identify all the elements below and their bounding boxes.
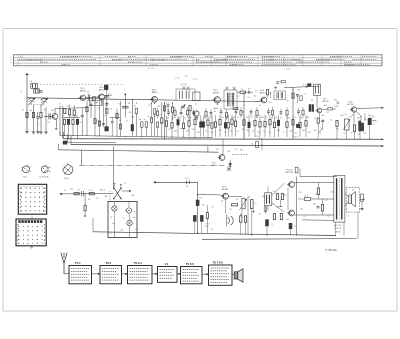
R4bc legs [69, 115, 71, 118]
mid component r9 [225, 112, 227, 117]
flow box TS2 [100, 266, 122, 284]
row wire y117.7 [62, 117, 80, 119]
svg-text:12k: 12k [308, 132, 311, 134]
svg-text:220: 220 [258, 132, 261, 134]
power verticals [194, 221, 196, 233]
TS1 base wire [44, 115, 52, 117]
svg-text:100: 100 [129, 112, 132, 114]
osc transistor hatch [194, 117, 198, 119]
svg-text:1 8: 1 8 [30, 81, 33, 83]
resistor R46 [336, 121, 338, 127]
lamp E1 legs [113, 202, 115, 206]
svg-text:6k8: 6k8 [277, 130, 280, 132]
R39 legs [274, 128, 276, 137]
svg-text:68: 68 [88, 199, 90, 201]
R43 legs [299, 128, 301, 137]
transistor TS1 [52, 114, 58, 120]
svg-text:6k8: 6k8 [307, 117, 310, 119]
svg-text:0,1: 0,1 [304, 216, 306, 218]
ecap tick [372, 120, 376, 122]
resistor R34 [259, 122, 261, 127]
resistor R17 [182, 123, 184, 128]
svg-text:220: 220 [297, 89, 300, 91]
svg-text:8 8 8 L 8 7: 8 8 8 L 8 7 [112, 59, 123, 61]
svg-text:8 8: 8 8 [334, 99, 337, 101]
svg-text:220: 220 [288, 117, 291, 119]
svg-text:82: 82 [295, 132, 297, 134]
resistor R3 [40, 112, 42, 117]
mid component r15 [271, 110, 273, 115]
svg-text:8 8 8: 8 8 8 [336, 232, 340, 234]
IF chain bottom blob [105, 127, 109, 131]
svg-text:10: 10 [212, 207, 214, 209]
ladder v x99.5 [99, 100, 101, 136]
out cap [317, 206, 320, 208]
rail corner verticals [59, 131, 61, 136]
R31 legs [243, 125, 245, 137]
mid component c10 [235, 110, 238, 112]
R17 legs [183, 129, 185, 137]
svg-text:2 8 9: 2 8 9 [286, 69, 290, 71]
resistor R16 [177, 120, 179, 125]
R27 legs [225, 128, 227, 137]
svg-text:8,2: 8,2 [48, 121, 50, 123]
resistor R8 [76, 119, 78, 124]
bits x301 [300, 96, 302, 101]
resistor R37 [264, 121, 266, 126]
ground ant 2 [32, 131, 35, 133]
oscillator box [176, 89, 195, 100]
svg-text:100: 100 [227, 151, 230, 153]
right stage verticals [353, 112, 355, 125]
flow box TS3-4 [128, 266, 153, 284]
header text run 1 [60, 56, 92, 58]
interstage transformer [265, 193, 272, 206]
svg-text:100: 100 [197, 132, 200, 134]
electrolytic out [368, 118, 371, 125]
title block column 9 [302, 55, 304, 66]
R12 legs [172, 102, 174, 107]
AGC arrow [306, 86, 308, 87]
flow arrow 1 [92, 273, 99, 275]
svg-text:220: 220 [70, 189, 73, 191]
svg-text:2xAC128: 2xAC128 [285, 171, 293, 174]
resistor R2 [32, 112, 34, 117]
svg-text:68: 68 [276, 118, 278, 120]
TS4 leg [154, 114, 156, 136]
title block column 12 [360, 55, 362, 66]
print board box 2 left col [17, 224, 19, 244]
svg-text:3k3: 3k3 [110, 95, 113, 97]
svg-text:3k3: 3k3 [174, 130, 177, 132]
header text run 8 [330, 56, 352, 58]
resistor fuse b [89, 193, 94, 195]
dark part between rails [63, 141, 67, 144]
svg-text:3k3: 3k3 [276, 207, 279, 209]
ground TS1 left [44, 131, 47, 133]
battery arrow [153, 181, 155, 183]
supply wire [62, 193, 114, 195]
lamp legs 2 [128, 202, 130, 208]
mid component c16 [280, 111, 283, 113]
svg-text:1k: 1k [246, 117, 248, 119]
driver wires [228, 195, 242, 198]
svg-text:12k: 12k [216, 149, 219, 151]
terminal arrow out [382, 107, 384, 109]
svg-text:1 8 4 1 8: 1 8 4 1 8 [334, 228, 341, 230]
svg-text:12k: 12k [226, 117, 229, 119]
svg-text:1 8: 1 8 [373, 124, 376, 126]
driver box winding [314, 86, 316, 94]
transformer legs [335, 222, 337, 236]
switch top stubs [113, 184, 115, 188]
print board box 1 pads [21, 188, 22, 189]
title block column 10 [321, 55, 323, 66]
osc trimmer X2 [187, 87, 190, 90]
svg-text:1n: 1n [80, 122, 82, 124]
svg-text:0,5: 0,5 [271, 117, 273, 119]
svg-text:220: 220 [179, 117, 182, 119]
R37 legs [264, 127, 266, 137]
svg-text:47: 47 [149, 105, 151, 107]
resistor R15 [171, 123, 173, 128]
TS8 out wire [357, 107, 382, 110]
osc sub box [193, 92, 200, 100]
mid component r2 [174, 111, 176, 116]
interstage leg [266, 226, 268, 235]
svg-text:4,7: 4,7 [252, 131, 254, 133]
svg-text:1n: 1n [184, 118, 186, 120]
svg-text:0,1: 0,1 [364, 119, 366, 121]
speaker ground [360, 208, 363, 210]
flow antenna [63, 264, 65, 274]
svg-text:6k8: 6k8 [160, 123, 163, 125]
rail R1 [64, 138, 382, 141]
svg-text:6k8: 6k8 [94, 102, 97, 104]
vertical x60 [59, 106, 61, 135]
svg-text:0,5: 0,5 [221, 200, 223, 202]
R38 legs [269, 125, 271, 137]
svg-text:0,5: 0,5 [104, 116, 106, 118]
AGC line [285, 86, 319, 87]
header text run 15 [316, 58, 345, 60]
svg-text:5k6: 5k6 [313, 204, 316, 206]
svg-text:68: 68 [167, 118, 169, 120]
svg-text:8,2: 8,2 [328, 215, 330, 217]
R29 legs [231, 124, 233, 136]
svg-text:39: 39 [87, 92, 89, 94]
bus A dots [197, 232, 198, 233]
resistor R21 [202, 122, 204, 127]
mid component c12 [250, 111, 253, 113]
out small rect [295, 167, 298, 173]
cap right TS2 [87, 94, 89, 101]
resistor R57 [273, 214, 275, 220]
cap x297 [296, 94, 299, 96]
TS7 bottom parts [318, 113, 320, 118]
resistor R13 [189, 106, 191, 111]
header text run 25 [230, 64, 244, 66]
contact pair [81, 191, 83, 196]
resistor R28 [227, 123, 229, 128]
mid cluster legs [135, 113, 137, 135]
rail R0 [60, 135, 213, 137]
mid component r4 [186, 110, 188, 115]
svg-text:68: 68 [62, 115, 64, 117]
svg-text:0,1: 0,1 [134, 105, 136, 107]
resistor R26 [219, 119, 221, 124]
svg-text:8,2: 8,2 [358, 134, 360, 136]
resistor R11 [164, 106, 166, 111]
feedback resistor [304, 198, 310, 201]
header text run 13 [214, 58, 255, 60]
resistor R35 [266, 90, 268, 95]
speaker side wire [361, 201, 363, 208]
svg-text:5 0 0 1 9 9: 5 0 0 1 9 9 [227, 57, 238, 59]
cap above IFT3 [276, 81, 279, 83]
svg-text:5n6: 5n6 [302, 130, 305, 132]
svg-text:4 2: 4 2 [165, 262, 169, 266]
svg-text:10: 10 [59, 104, 61, 106]
svg-text:4 1 7 8: 4 1 7 8 [148, 68, 155, 70]
R21 legs [202, 127, 204, 136]
svg-text:5k6: 5k6 [336, 129, 339, 131]
svg-text:8,2: 8,2 [256, 117, 258, 119]
svg-text:0,5: 0,5 [167, 103, 169, 105]
svg-text:2k2: 2k2 [51, 110, 54, 112]
svg-text:0,5: 0,5 [269, 102, 271, 104]
transistor TS9 driver [223, 193, 229, 199]
svg-text:1 4 8: 1 4 8 [175, 78, 179, 80]
ladder v x103.5 [103, 99, 105, 127]
diode D2 [229, 163, 232, 166]
header text run 12 [196, 58, 200, 60]
print board box 2 right col [43, 224, 45, 244]
svg-text:4,7: 4,7 [126, 120, 128, 122]
IF chain cap [105, 103, 108, 105]
resistor R40 [277, 120, 279, 125]
svg-text:2 2 8: 2 2 8 [193, 79, 197, 81]
svg-text:SK 3: SK 3 [100, 189, 106, 191]
AGC corner down [318, 84, 320, 86]
svg-text:8 6: 8 6 [185, 75, 188, 77]
res above IFT3 [281, 81, 285, 83]
svg-text:8 8: 8 8 [186, 186, 188, 188]
svg-text:15: 15 [169, 129, 171, 131]
switch out wire [122, 190, 130, 192]
svg-text:8 8: 8 8 [211, 229, 213, 231]
wire R24 [237, 91, 240, 93]
flow box TS7-8-9 [209, 265, 233, 285]
branch down x85 [84, 194, 86, 205]
lamp box [108, 202, 137, 238]
svg-text:39: 39 [301, 118, 303, 120]
resistor R41 [286, 122, 288, 127]
svg-text:68: 68 [287, 101, 289, 103]
cap x82 [81, 114, 84, 116]
svg-text:82: 82 [285, 194, 287, 196]
vertical x164.6 [164, 102, 166, 139]
svg-text:1 8: 1 8 [241, 89, 244, 91]
branch terminal [84, 211, 86, 215]
dark pair right [359, 121, 361, 131]
svg-text:47: 47 [238, 96, 240, 98]
title block row line 1 [14, 57, 383, 59]
svg-text:1k: 1k [252, 143, 254, 145]
svg-text:10: 10 [259, 105, 261, 107]
svg-text:F‷36 31A: F‷36 31A [326, 248, 337, 252]
svg-text:1k: 1k [144, 119, 146, 121]
out stage wires [317, 183, 319, 188]
IFT2 loop ticks [227, 93, 230, 95]
svg-text:82: 82 [180, 129, 182, 131]
resistor R4b [68, 110, 70, 115]
R22 legs [207, 125, 209, 136]
svg-text:8 8 1 8 8: 8 8 1 8 8 [334, 225, 341, 227]
IFT3 winding 1 [276, 92, 278, 98]
svg-text:82: 82 [360, 117, 362, 119]
IF transformer 2 box [224, 90, 237, 109]
svg-text:8,2: 8,2 [248, 97, 250, 99]
resistor R10 [161, 118, 163, 123]
dash after TS9 [232, 153, 248, 155]
resistor R39 [273, 122, 275, 127]
svg-text:8: 8 [133, 223, 134, 225]
svg-text:4,7: 4,7 [280, 117, 282, 119]
flow box TS1 [69, 266, 92, 284]
svg-text:1n: 1n [148, 116, 150, 118]
resistor R19 [194, 119, 196, 124]
svg-text:Ts 7b,Ts 8b: Ts 7b,Ts 8b [39, 177, 48, 179]
volume pot [242, 198, 245, 209]
svg-text:8,2: 8,2 [200, 198, 202, 200]
R13 leg [189, 111, 191, 121]
svg-text:5k6: 5k6 [125, 211, 128, 213]
svg-text:5k6: 5k6 [241, 112, 244, 114]
TS1 collector wire [54, 109, 56, 114]
svg-text:8 1 8: 8 1 8 [303, 84, 307, 86]
R26 legs [219, 125, 221, 137]
print board box 1 top row [21, 186, 45, 188]
resistor R23 [211, 123, 213, 128]
resistor R54 [245, 216, 247, 222]
pot right [344, 119, 349, 130]
chain x168 cap [167, 104, 170, 106]
parts right of TS9 [256, 142, 259, 148]
battery contacts [186, 180, 188, 184]
gang link dashes [40, 84, 124, 86]
control line [80, 164, 226, 166]
trimmer C8 [181, 105, 185, 107]
svg-text:15: 15 [283, 132, 285, 134]
svg-text:100: 100 [233, 117, 236, 119]
osc winding 1 [178, 91, 180, 99]
R23 legs [211, 128, 213, 136]
svg-text:5n6: 5n6 [112, 223, 115, 225]
title block row line 2 [14, 60, 383, 62]
top rail out [300, 176, 337, 178]
svg-text:3k3: 3k3 [322, 115, 325, 117]
header text run 27 [344, 64, 370, 66]
header text run 24 [150, 64, 158, 66]
osc winding 2 [185, 91, 187, 99]
resistor R30 [234, 121, 236, 126]
transistor TS9 agc [219, 155, 225, 161]
svg-text:12k: 12k [349, 117, 352, 119]
svg-text:0,1: 0,1 [237, 117, 239, 119]
svg-text:1n: 1n [304, 94, 306, 96]
switch X [114, 187, 122, 199]
svg-text:68: 68 [230, 209, 232, 211]
svg-text:6 2 C 5 6 4: 6 2 C 5 6 4 [330, 57, 341, 59]
flow box 42 [158, 267, 178, 283]
svg-text:3k3: 3k3 [290, 130, 293, 132]
resistor R52 [251, 200, 254, 209]
svg-text:82: 82 [327, 112, 329, 114]
svg-text:1 8: 1 8 [270, 224, 272, 226]
svg-text:39: 39 [97, 198, 99, 200]
svg-text:1 8: 1 8 [255, 90, 258, 92]
bottom bus A [93, 232, 336, 236]
feedback wire [311, 198, 334, 200]
svg-text:1n: 1n [294, 117, 296, 119]
svg-text:2 8 8: 2 8 8 [185, 178, 189, 180]
header text run 16 [352, 58, 377, 60]
connector view 2 [41, 166, 48, 173]
svg-text:2k2: 2k2 [158, 106, 161, 108]
title block column 7 [257, 55, 259, 66]
svg-text:2k2: 2k2 [261, 117, 264, 119]
svg-text:47: 47 [351, 133, 353, 135]
title block column 1 [17, 55, 19, 66]
IFT2 core dash [230, 92, 232, 107]
header text run 4 [170, 56, 192, 58]
electrolytic pair [309, 105, 311, 112]
tuning legs [33, 105, 35, 132]
svg-text:82: 82 [214, 111, 216, 113]
header text run 22 [344, 61, 352, 63]
print board box 2 [16, 219, 46, 246]
svg-text:0,5: 0,5 [67, 105, 69, 107]
rail R4 [59, 150, 219, 152]
antenna coil L1 [31, 83, 38, 88]
rail R1 arrow [382, 138, 384, 140]
svg-text:4,7: 4,7 [236, 199, 238, 201]
header text run 17 [40, 61, 48, 63]
IFT2 winding 2 [231, 93, 233, 107]
mid cluster res c [145, 122, 147, 127]
vertical x207.9 [207, 146, 209, 152]
svg-text:1n: 1n [255, 203, 257, 205]
ground rod [25, 131, 28, 133]
R14 legs [166, 126, 168, 136]
svg-text:1k: 1k [37, 124, 39, 126]
svg-text:N A 8 L 3 0 4 8 1: N A 8 L 3 0 4 8 1 [150, 58, 166, 61]
svg-text:12k: 12k [299, 192, 302, 194]
R19 legs [194, 125, 196, 137]
driver base wire [219, 194, 222, 197]
R30 legs [235, 126, 237, 136]
small marks under TS5 [213, 107, 218, 109]
rail R0 dots [64, 135, 65, 136]
svg-text:AF117: AF117 [260, 91, 267, 94]
resistor R55 [276, 194, 278, 200]
resistor R44 [305, 121, 307, 126]
svg-text:5n6: 5n6 [186, 131, 189, 133]
TS9 top leg [222, 139, 224, 154]
header text run 23 [62, 64, 70, 66]
resistor R18 [188, 121, 190, 126]
